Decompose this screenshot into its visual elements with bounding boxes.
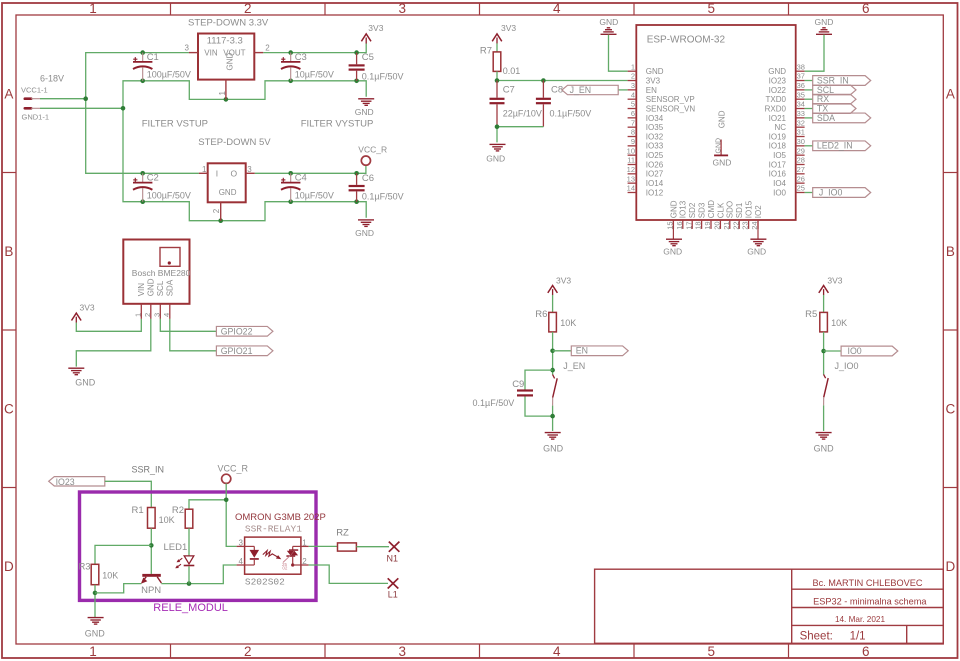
wire collector net (161, 565, 236, 584)
svg-text:B: B (4, 244, 13, 259)
node collector LED junction (187, 581, 192, 586)
svg-text:J_EN: J_EN (570, 85, 592, 95)
svg-text:8: 8 (631, 128, 635, 137)
svg-text:C7: C7 (503, 84, 515, 95)
svg-text:IO4: IO4 (773, 179, 786, 188)
svg-text:LED2_IN: LED2_IN (817, 141, 853, 151)
svg-text:FILTER VSTUP: FILTER VSTUP (142, 119, 208, 130)
supply VCC_R above C6 (358, 145, 387, 166)
module box RELE_MODUL (80, 492, 317, 600)
svg-text:EN: EN (576, 346, 588, 356)
svg-text:R3: R3 (78, 562, 90, 573)
svg-text:17: 17 (684, 221, 693, 229)
supply 3V3 at BME280 (72, 302, 95, 322)
svg-text:SENSOR_VP: SENSOR_VP (646, 95, 695, 104)
node 3V3 output junctions (288, 50, 359, 55)
svg-text:19: 19 (703, 221, 712, 229)
svg-text:3: 3 (239, 538, 244, 547)
svg-text:O: O (231, 169, 238, 179)
svg-text:SD2: SD2 (688, 202, 697, 218)
svg-text:SSR_IN: SSR_IN (132, 465, 165, 475)
svg-text:6: 6 (862, 644, 870, 659)
svg-text:SD3: SD3 (698, 202, 707, 218)
svg-text:N1: N1 (387, 554, 399, 564)
supply 3V3 above R6 (548, 276, 572, 296)
svg-text:1: 1 (89, 644, 97, 659)
svg-text:J_EN: J_EN (563, 361, 585, 371)
node EN ground junction (550, 414, 555, 419)
wire EN pin stub (618, 89, 627, 91)
svg-text:22µF/10V: 22µF/10V (503, 108, 542, 118)
optocoupler light arrow (263, 551, 282, 560)
supply 3V3 above C5 (361, 23, 383, 43)
svg-text:STEP-DOWN 3.3V: STEP-DOWN 3.3V (188, 17, 269, 28)
svg-text:1117-3.3: 1117-3.3 (207, 36, 243, 47)
svg-text:1: 1 (302, 538, 307, 547)
svg-text:10µF/50V: 10µF/50V (295, 70, 334, 80)
node IO0 junction (821, 349, 826, 354)
net flag IO0 (841, 346, 898, 356)
svg-text:1: 1 (202, 165, 207, 174)
wire ESP pin1 to ground (609, 35, 628, 72)
supply 3V3 above R5 (819, 276, 843, 296)
svg-text:C1: C1 (147, 52, 159, 63)
svg-text:2: 2 (302, 557, 307, 566)
svg-text:14: 14 (627, 184, 635, 193)
svg-text:7: 7 (631, 118, 635, 127)
svg-text:GND: GND (599, 17, 618, 27)
svg-text:GND: GND (355, 107, 374, 117)
title sheet text (800, 631, 866, 643)
net flag SSR_IN (805, 76, 871, 86)
svg-text:29: 29 (797, 146, 805, 155)
svg-text:3V3: 3V3 (368, 23, 383, 33)
pin VCC1-1 (21, 86, 48, 99)
wire 3V3 regulator output net (263, 43, 366, 52)
svg-text:22: 22 (731, 221, 740, 229)
svg-text:3: 3 (185, 43, 190, 52)
svg-text:GND: GND (669, 200, 678, 218)
node R3 emitter junction (93, 591, 98, 596)
svg-text:SSR-RELAY1: SSR-RELAY1 (245, 524, 302, 535)
capacitor C8 (536, 81, 591, 127)
wire switch to ground EN (552, 406, 554, 431)
ground above ESP pin 38 (815, 17, 834, 35)
svg-text:J_IO0: J_IO0 (835, 361, 859, 371)
capacitor C6 (349, 173, 404, 202)
net flag LED2_IN (805, 141, 871, 151)
svg-text:10µF/50V: 10µF/50V (295, 190, 334, 200)
ground below BME280 (68, 368, 95, 388)
svg-text:3: 3 (399, 1, 407, 16)
svg-text:R5: R5 (805, 309, 817, 320)
transistor Q NPN (141, 574, 162, 596)
svg-text:IO17: IO17 (769, 160, 787, 169)
svg-text:1: 1 (218, 91, 227, 96)
svg-text:IO5: IO5 (773, 151, 786, 160)
capacitor C9 (473, 379, 534, 408)
svg-text:EN: EN (646, 86, 657, 95)
svg-text:6: 6 (631, 109, 635, 118)
optocoupler SSR box (245, 537, 301, 574)
svg-text:IO33: IO33 (646, 142, 664, 151)
svg-text:IO21: IO21 (769, 114, 787, 123)
border column numbers top (89, 1, 869, 16)
svg-text:4: 4 (553, 1, 561, 16)
BME280 pins (133, 278, 174, 319)
svg-text:10K: 10K (159, 515, 175, 525)
svg-text:VIN: VIN (137, 283, 146, 297)
svg-text:0.1µF/50V: 0.1µF/50V (362, 192, 404, 202)
svg-text:36: 36 (797, 81, 805, 90)
svg-text:1: 1 (631, 62, 635, 71)
border row letters left (4, 86, 14, 574)
svg-text:GND: GND (219, 188, 237, 197)
svg-text:27: 27 (797, 165, 805, 174)
border column numbers bottom (89, 644, 869, 659)
wire BME SDA to GPIO21 (170, 319, 217, 351)
wire ESP pin38 to ground (805, 35, 824, 72)
node VIN junctions (83, 50, 145, 175)
net flag SDA (805, 113, 871, 123)
wire 3V3 to R7 (496, 43, 498, 51)
svg-text:SDA: SDA (166, 279, 175, 296)
svg-text:S202S02: S202S02 (245, 576, 285, 587)
svg-text:IO19: IO19 (769, 132, 787, 141)
svg-text:GND: GND (355, 228, 374, 238)
svg-text:CMD: CMD (707, 200, 716, 218)
border row letters right (946, 86, 956, 574)
ESP right pins 38-25 (765, 62, 805, 197)
svg-text:C3: C3 (295, 52, 307, 63)
node GND input junctions (121, 79, 359, 224)
ground below ESP pin 15 (663, 239, 682, 256)
svg-text:21: 21 (722, 221, 731, 229)
wire 3V3 to R5 (823, 295, 825, 313)
wire ESP pin15 to ground (672, 221, 674, 239)
capacitor C3 (281, 52, 334, 81)
svg-text:11: 11 (627, 156, 635, 165)
terminal N1 (387, 542, 400, 564)
capacitor C5 (349, 52, 404, 81)
ground below ESP pin 24 (747, 239, 766, 256)
svg-text:4: 4 (239, 557, 244, 566)
svg-text:13: 13 (627, 174, 635, 183)
svg-text:GPIO21: GPIO21 (221, 346, 253, 356)
svg-text:10: 10 (627, 146, 635, 155)
svg-text:IO18: IO18 (769, 142, 787, 151)
switch J_EN (553, 375, 555, 379)
svg-text:SD1: SD1 (735, 202, 744, 218)
svg-text:GND: GND (646, 67, 664, 76)
wire EN flag stub (553, 350, 572, 352)
svg-text:4: 4 (631, 90, 635, 99)
svg-text:5: 5 (708, 1, 716, 16)
capacitor C4 (281, 173, 334, 202)
svg-text:Bosch BME280: Bosch BME280 (132, 268, 191, 278)
svg-text:2: 2 (212, 208, 221, 213)
wire GND input net (40, 81, 366, 109)
svg-text:GND: GND (747, 247, 766, 257)
svg-text:GND: GND (543, 443, 564, 453)
svg-text:10K: 10K (560, 318, 576, 328)
svg-text:L1: L1 (388, 590, 398, 600)
svg-text:26: 26 (797, 174, 805, 183)
svg-text:C6: C6 (362, 173, 374, 184)
svg-text:D: D (946, 559, 956, 574)
svg-text:4: 4 (553, 644, 561, 659)
wire opto pin2 to L1 (309, 565, 388, 583)
wire R1 to R3 (95, 545, 151, 564)
svg-text:1: 1 (89, 1, 97, 16)
svg-text:32: 32 (797, 118, 805, 127)
svg-text:LED1: LED1 (164, 542, 188, 553)
net flag J_IO0 (805, 188, 871, 198)
net flag GPIO21 (216, 346, 273, 356)
svg-text:FILTER VYSTUP: FILTER VYSTUP (301, 119, 374, 130)
svg-text:IO34: IO34 (646, 114, 664, 123)
svg-text:C5: C5 (362, 52, 374, 63)
wire C9 branch (525, 370, 553, 389)
svg-text:NC: NC (774, 123, 786, 132)
optocoupler triac (282, 546, 301, 570)
svg-text:GND: GND (147, 278, 156, 296)
capacitor C2 (133, 173, 191, 202)
svg-text:2: 2 (244, 644, 252, 659)
module ESP-WROOM-32 body (636, 25, 795, 220)
svg-text:IO2: IO2 (754, 205, 763, 218)
svg-text:GND: GND (713, 157, 732, 167)
resistor R3 (78, 562, 118, 585)
svg-text:IO27: IO27 (646, 170, 664, 179)
svg-text:3V3: 3V3 (501, 23, 516, 33)
svg-text:2: 2 (265, 43, 270, 52)
svg-text:1: 1 (133, 313, 142, 317)
wire emitter net (95, 584, 141, 593)
svg-text:100µF/50V: 100µF/50V (147, 70, 191, 80)
svg-text:Sheet:: Sheet: (800, 631, 833, 643)
ground below J_IO0 (814, 433, 835, 454)
svg-text:0.1µF/50V: 0.1µF/50V (362, 71, 404, 81)
svg-text:9: 9 (631, 137, 635, 146)
svg-text:TXD0: TXD0 (766, 95, 787, 104)
svg-text:5: 5 (708, 644, 716, 659)
svg-text:30: 30 (797, 137, 805, 146)
svg-text:IO23: IO23 (769, 76, 787, 85)
capacitor C1 (133, 52, 191, 81)
svg-text:IO22: IO22 (769, 86, 787, 95)
optocoupler internal LED (245, 546, 260, 565)
supply 3V3 above R7 (492, 23, 516, 43)
svg-text:5: 5 (631, 100, 635, 109)
svg-text:1/1: 1/1 (850, 631, 866, 643)
svg-text:0.1µF/50V: 0.1µF/50V (550, 108, 592, 118)
node R1 bottom junction (149, 543, 154, 548)
svg-text:25: 25 (797, 184, 805, 193)
wire R6 to switch (552, 332, 554, 375)
net flag SCL (805, 85, 856, 95)
svg-text:I: I (216, 169, 218, 179)
net flag GPIO22 (216, 326, 273, 336)
svg-text:IO25: IO25 (646, 151, 664, 160)
svg-text:12: 12 (627, 165, 635, 174)
svg-text:4: 4 (162, 313, 171, 317)
wire VIN net (40, 53, 189, 99)
svg-text:20: 20 (713, 221, 722, 229)
ground above ESP pin 1 (599, 17, 618, 35)
svg-text:35: 35 (797, 90, 805, 99)
wire VCC_R regulator output net (255, 165, 366, 173)
ground below relay module (85, 618, 106, 639)
capacitor C7 (490, 81, 542, 127)
node VCC_R junction (224, 498, 229, 503)
svg-text:C4: C4 (295, 173, 307, 184)
svg-text:IO14: IO14 (646, 179, 664, 188)
net flag RX (805, 94, 856, 104)
wire R7 to ESP 3V3 pin (497, 71, 628, 80)
svg-text:GND: GND (717, 110, 726, 128)
svg-text:6: 6 (862, 1, 870, 16)
svg-text:ESP32 - minimalna schema: ESP32 - minimalna schema (813, 596, 927, 606)
wire RZ to N1 (356, 546, 389, 548)
svg-text:10K: 10K (831, 318, 847, 328)
wire R3 to ground (94, 585, 96, 618)
svg-text:18: 18 (694, 221, 703, 229)
node R7 junctions (495, 78, 546, 83)
ground below J_EN (543, 433, 564, 454)
svg-text:31: 31 (797, 128, 805, 137)
svg-text:J_IO0: J_IO0 (819, 188, 843, 198)
svg-text:IO35: IO35 (646, 123, 664, 132)
switch J_IO0 (824, 374, 826, 378)
svg-text:R1: R1 (132, 505, 144, 516)
svg-text:D: D (4, 559, 14, 574)
wire IO0 flag stub (824, 350, 842, 352)
svg-text:RZ: RZ (336, 528, 349, 539)
wire C7 C8 ground (497, 127, 543, 143)
svg-text:A: A (4, 86, 13, 101)
svg-text:33: 33 (797, 109, 805, 118)
svg-text:GND: GND (814, 443, 835, 453)
resistor RZ (336, 528, 356, 552)
svg-text:IO16: IO16 (769, 170, 787, 179)
svg-text:16: 16 (675, 221, 684, 229)
wire R1 to transistor base (150, 528, 152, 574)
wire BME SCL to GPIO22 (160, 319, 216, 331)
svg-text:VCC1-1: VCC1-1 (21, 86, 48, 95)
title block frame (595, 569, 944, 643)
svg-text:3V3: 3V3 (80, 302, 95, 312)
ESP left pins 1-14 (627, 62, 696, 197)
ground below C7 (486, 144, 505, 163)
svg-text:23: 23 (741, 221, 750, 229)
LED LED1 (164, 542, 195, 568)
svg-text:IO0: IO0 (773, 188, 786, 197)
svg-text:GND: GND (768, 67, 786, 76)
svg-text:GPIO22: GPIO22 (221, 326, 253, 336)
wire ESP pin24 to ground (757, 221, 759, 239)
svg-text:IO15: IO15 (745, 200, 754, 218)
svg-text:2: 2 (244, 1, 252, 16)
net flag TX (805, 103, 856, 113)
ground below C6 (355, 220, 374, 238)
svg-text:C: C (946, 402, 956, 417)
svg-text:RXD0: RXD0 (765, 104, 787, 113)
svg-text:100µF/50V: 100µF/50V (147, 190, 191, 200)
svg-text:GND: GND (663, 247, 682, 257)
optocoupler pins (237, 538, 309, 566)
regulator U 1117-3.3 (185, 34, 271, 100)
net flag EN (571, 346, 628, 356)
svg-text:VCC_R: VCC_R (218, 464, 249, 474)
svg-text:GND: GND (85, 628, 106, 638)
svg-text:3V3: 3V3 (827, 276, 842, 286)
svg-text:34: 34 (797, 100, 805, 109)
svg-text:RELE_MODUL: RELE_MODUL (153, 602, 228, 614)
svg-text:10K: 10K (102, 570, 118, 580)
node C7 ground junction (495, 124, 500, 129)
wire VCC_R to R2 and opto (226, 483, 236, 546)
resistor R6 (535, 309, 576, 332)
svg-text:C2: C2 (147, 173, 159, 184)
svg-text:SDA: SDA (817, 113, 835, 123)
svg-text:C: C (4, 402, 14, 417)
ESP bottom pins 15-24 (666, 200, 763, 230)
svg-text:A: A (946, 86, 955, 101)
svg-text:R7: R7 (480, 46, 492, 57)
sensor BME280 body (123, 240, 190, 304)
svg-text:GND: GND (486, 154, 505, 164)
wire BME VIN to 3V3 (76, 319, 141, 331)
svg-text:SENSOR_VN: SENSOR_VN (646, 104, 696, 113)
svg-text:STEP-DOWN 5V: STEP-DOWN 5V (198, 137, 271, 148)
svg-text:OMRON G3MB 202P: OMRON G3MB 202P (235, 512, 326, 523)
svg-text:28: 28 (797, 156, 805, 165)
svg-text:0.01: 0.01 (503, 66, 521, 76)
wire opto pin1 to RZ (309, 545, 338, 547)
net flag J_EN at ESP (562, 85, 618, 95)
svg-text:GND1-1: GND1-1 (22, 113, 50, 122)
ESP internal ground symbol (713, 138, 732, 167)
svg-text:SCL: SCL (156, 280, 165, 296)
svg-text:3: 3 (152, 313, 161, 317)
wire LED1 to collector (188, 566, 190, 583)
svg-text:CLK: CLK (716, 202, 725, 218)
pin GND1-1 (22, 108, 50, 121)
svg-text:3: 3 (399, 644, 407, 659)
wire BME GND (76, 319, 151, 367)
svg-text:ESP-WROOM-32: ESP-WROOM-32 (647, 35, 726, 46)
svg-text:02: 02 (282, 566, 288, 571)
svg-text:2: 2 (143, 313, 152, 317)
svg-text:GND: GND (75, 378, 96, 388)
svg-text:14. Mar. 2021: 14. Mar. 2021 (835, 615, 886, 624)
svg-text:IO26: IO26 (646, 160, 664, 169)
svg-text:0.1µF/50V: 0.1µF/50V (473, 398, 515, 408)
wire 3V3 to R6 (552, 295, 554, 313)
resistor R2 (172, 505, 193, 528)
svg-text:R6: R6 (535, 309, 547, 320)
node EN junctions (550, 349, 555, 373)
svg-text:3: 3 (631, 81, 635, 90)
svg-text:6-18V: 6-18V (40, 74, 64, 84)
ground below C5 (355, 99, 374, 117)
svg-text:B: B (946, 244, 955, 259)
svg-text:3: 3 (247, 165, 252, 174)
resistor R5 (805, 309, 847, 332)
svg-text:GND: GND (225, 53, 234, 71)
supply VCC_R at relay (218, 464, 249, 484)
